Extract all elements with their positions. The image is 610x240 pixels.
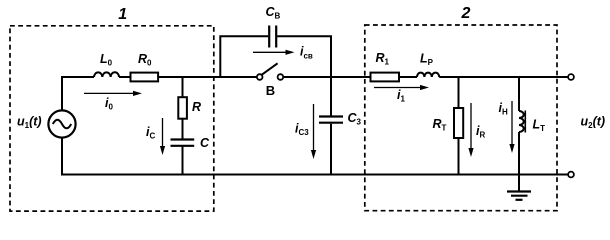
wire branch R-C xyxy=(182,77,184,97)
wire source bottom / bottom rail xyxy=(62,138,568,175)
terminal top xyxy=(568,74,574,80)
dashed box 1 xyxy=(10,26,214,211)
current arrow iR xyxy=(470,103,472,150)
wire xyxy=(399,76,417,78)
current arrow isv xyxy=(253,51,287,53)
current arrow iC3 xyxy=(313,104,315,152)
voltage source u1 xyxy=(48,110,75,137)
svg-text:B: B xyxy=(266,83,275,98)
wire branch RT xyxy=(458,77,460,108)
wire xyxy=(439,76,568,78)
svg-text:u1(t): u1(t) xyxy=(17,115,42,131)
svg-text:1: 1 xyxy=(118,6,127,23)
wire xyxy=(158,76,257,78)
current arrow iH xyxy=(511,101,513,146)
capacitor C3 xyxy=(319,115,343,117)
wire xyxy=(182,119,184,139)
svg-text:2: 2 xyxy=(461,5,471,22)
dashed box 2 xyxy=(365,25,557,211)
wire xyxy=(119,76,131,78)
capacitor C xyxy=(171,138,195,140)
inductor LT xyxy=(519,111,524,132)
inductor L0 xyxy=(94,72,119,77)
ground xyxy=(518,175,520,192)
wire xyxy=(330,124,332,175)
wire branch CB up-left xyxy=(220,36,268,77)
resistor RT xyxy=(454,108,463,138)
current arrow iC xyxy=(162,118,164,148)
resistor R1 xyxy=(371,73,400,82)
wire xyxy=(458,138,460,175)
svg-text:R: R xyxy=(192,100,201,114)
wire branch CB down-right xyxy=(277,36,331,77)
current arrow i0 xyxy=(84,92,135,94)
terminal bottom xyxy=(568,172,574,178)
wire top-left corner xyxy=(62,77,94,111)
resistor R0 xyxy=(131,73,159,82)
wire xyxy=(182,146,184,175)
switch B xyxy=(257,74,263,80)
wire branch LT xyxy=(518,77,520,111)
capacitor CB xyxy=(268,26,270,48)
inductor LP xyxy=(417,73,439,77)
wire xyxy=(283,76,370,78)
resistor R xyxy=(178,97,187,119)
svg-text:C: C xyxy=(200,136,210,150)
svg-text:u2(t): u2(t) xyxy=(581,115,606,131)
wire branch C3 xyxy=(330,77,332,116)
current arrow i1 xyxy=(374,87,422,89)
wire xyxy=(518,132,520,175)
